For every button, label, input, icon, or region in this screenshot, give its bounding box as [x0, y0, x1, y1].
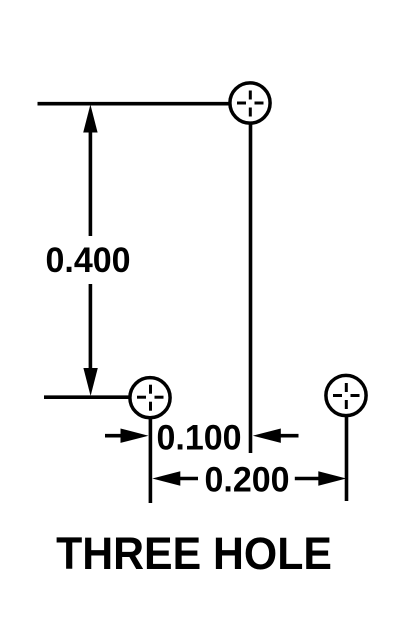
svg-text:0.200: 0.200	[204, 461, 289, 500]
center mark H3	[333, 383, 360, 409]
wire: bottom-left edge line	[44, 395, 130, 399]
dimension 0.100 left tail	[105, 434, 122, 438]
dimension 0.400 shaft upper	[89, 131, 93, 236]
dimension 0.200 left tail	[179, 477, 198, 481]
value label 0.100	[156, 419, 241, 458]
svg-text:0.400: 0.400	[45, 241, 130, 280]
value label 0.400	[45, 241, 130, 280]
center mark H1	[237, 91, 264, 117]
svg-text:THREE HOLE: THREE HOLE	[56, 529, 332, 579]
dimension 0.100 right tail	[280, 434, 299, 438]
hole H3 (bottom right)	[326, 375, 366, 415]
dimension 0.400 shaft lower	[89, 284, 93, 370]
dimension 0.100 right arrow (points left)	[253, 429, 281, 443]
wire: vertical extension from hole H2	[149, 416, 153, 503]
dimension 0.200 right arrow (points right)	[318, 471, 346, 485]
center mark H2	[137, 385, 164, 411]
title label THREE HOLE	[56, 529, 332, 579]
dimension 0.200 right tail	[295, 477, 320, 481]
hole H2 (bottom left)	[130, 378, 170, 418]
dimension 0.100 left arrow (points right)	[121, 429, 149, 443]
svg-text:0.100: 0.100	[156, 419, 241, 458]
wire: vertical extension from hole H3	[345, 414, 349, 501]
wire: top edge line	[38, 102, 231, 106]
dimension 0.200 left arrow (points left)	[152, 471, 180, 485]
value label 0.200	[204, 461, 289, 500]
dimension 0.400 arrow down	[83, 368, 97, 396]
hole H1 (top)	[230, 83, 270, 123]
dimension 0.400 arrow up	[83, 105, 97, 133]
wire: vertical extension from hole H1	[249, 122, 253, 453]
